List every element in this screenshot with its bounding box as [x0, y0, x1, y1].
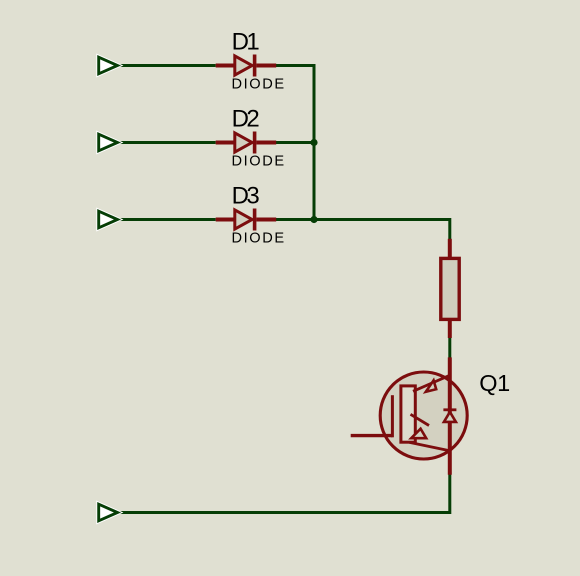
- Q1 gate pin: [351, 434, 393, 437]
- junction dot row3 bus: [310, 216, 317, 223]
- Q1 internal diode triangle: [444, 412, 456, 422]
- terminal input 1: [99, 57, 118, 74]
- wire vertical bus: [313, 64, 316, 220]
- Q1 body circle: [380, 372, 467, 459]
- diode D3: [216, 209, 277, 231]
- terminal input 3: [99, 211, 118, 228]
- Q1 emitter slant line: [410, 442, 451, 451]
- wire row2 terminal to D2 anode: [117, 141, 216, 144]
- Q1 collector arrow: [426, 380, 436, 391]
- wire row1 terminal to D1 anode: [117, 64, 216, 67]
- wire row2 D2 cathode to junction: [276, 141, 314, 144]
- Q1 emitter arrow: [411, 429, 426, 439]
- Q1 internal diode cathode bar: [443, 408, 456, 411]
- resistor R1: [441, 239, 459, 338]
- wire Q1 emitter to bottom rail: [117, 475, 450, 513]
- wire row3 terminal to D3 anode: [117, 218, 216, 221]
- Q1 channel bar: [401, 386, 415, 442]
- svg-text:DIODE: DIODE: [232, 154, 286, 170]
- Q1 collector-emitter pin line: [448, 357, 452, 474]
- svg-text:Q1: Q1: [479, 370, 509, 396]
- svg-text:DIODE: DIODE: [232, 77, 286, 93]
- svg-text:DIODE: DIODE: [232, 231, 286, 247]
- transistor Q1 (IGBT): [351, 357, 468, 474]
- svg-text:D2: D2: [232, 105, 260, 132]
- diode D2: [216, 132, 277, 154]
- wire row3 D3 cathode to resistor corner: [276, 220, 450, 240]
- wire row1 D1 cathode to bus corner: [276, 66, 314, 68]
- Q1 gate plate: [391, 395, 394, 437]
- Q1 middle slant line: [411, 414, 430, 425]
- terminal input 2: [99, 134, 118, 151]
- junction dot row2 bus: [310, 139, 317, 146]
- svg-text:D1: D1: [232, 28, 260, 55]
- diode D1: [216, 55, 277, 77]
- terminal bottom: [99, 504, 118, 521]
- wire resistor bottom to Q1 collector: [448, 338, 451, 358]
- Q1 collector slant line: [413, 375, 450, 391]
- svg-text:D3: D3: [232, 182, 260, 209]
